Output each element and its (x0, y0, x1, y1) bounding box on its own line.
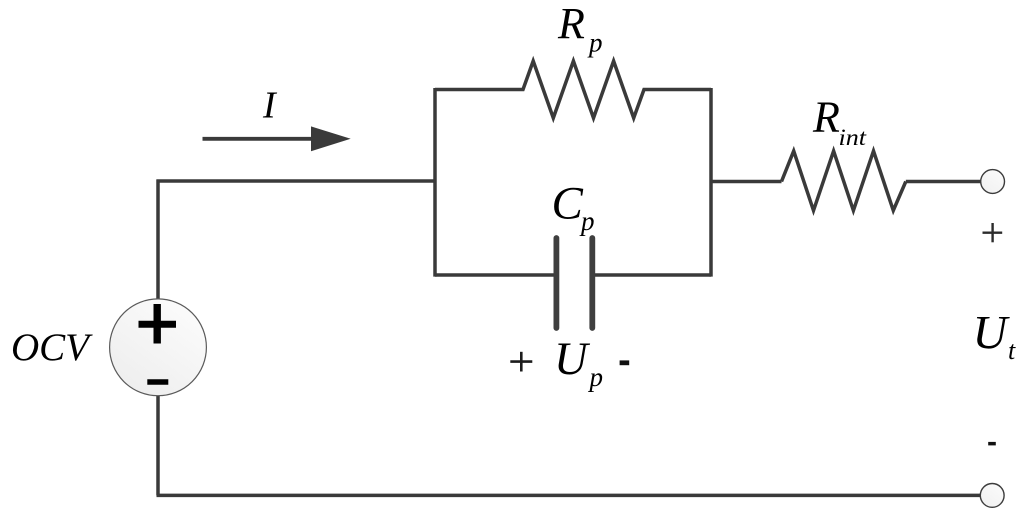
minus sign for U_p (620, 360, 630, 365)
current arrow I (shaft) (203, 137, 319, 141)
svg-text:OCV: OCV (11, 326, 93, 369)
plus sign inside source (139, 321, 177, 328)
plus sign for U_p (510, 360, 532, 363)
wire: left vertical from mid wire down to source top (156, 180, 160, 301)
svg-text:I: I (262, 85, 278, 127)
voltage source OCV (circle) (110, 299, 207, 396)
wire: from R_int to top-right terminal (906, 180, 981, 184)
wire: box bottom-right segment from capacitor right plate (595, 273, 712, 277)
resistor R_p (zigzag on box top edge) (435, 61, 711, 118)
resistor R_int (zigzag) (782, 151, 906, 211)
wire: left vertical from source bottom down to bottom wire (156, 395, 160, 496)
svg-text:U: U (973, 307, 1011, 360)
svg-text:int: int (839, 125, 867, 151)
minus sign inside source (147, 379, 168, 385)
svg-text:U: U (554, 334, 591, 385)
terminal (top right) (981, 170, 1005, 194)
wire: box bottom-left segment to capacitor left plate (435, 273, 554, 277)
svg-text:p: p (587, 28, 603, 58)
wire: bottom horizontal to bottom-right terminal (157, 494, 982, 498)
minus sign at output terminal (988, 442, 996, 446)
capacitor C_p right plate (589, 238, 595, 328)
wire: left mid horizontal from source branch to RC box (157, 179, 436, 183)
terminal (bottom right) (980, 484, 1004, 508)
svg-text:R: R (557, 0, 585, 48)
capacitor C_p left plate (554, 238, 560, 328)
svg-text:C: C (552, 178, 584, 230)
svg-text:t: t (1008, 336, 1016, 365)
wire: RC box right edge (709, 88, 713, 277)
wire: from box right edge to R_int (711, 180, 782, 184)
current arrow I (head) (311, 126, 351, 151)
svg-text:R: R (812, 93, 840, 142)
svg-text:p: p (588, 362, 604, 392)
plus sign at output terminal (983, 231, 1003, 233)
wire: RC box left edge (433, 88, 437, 277)
svg-text:p: p (579, 206, 595, 236)
